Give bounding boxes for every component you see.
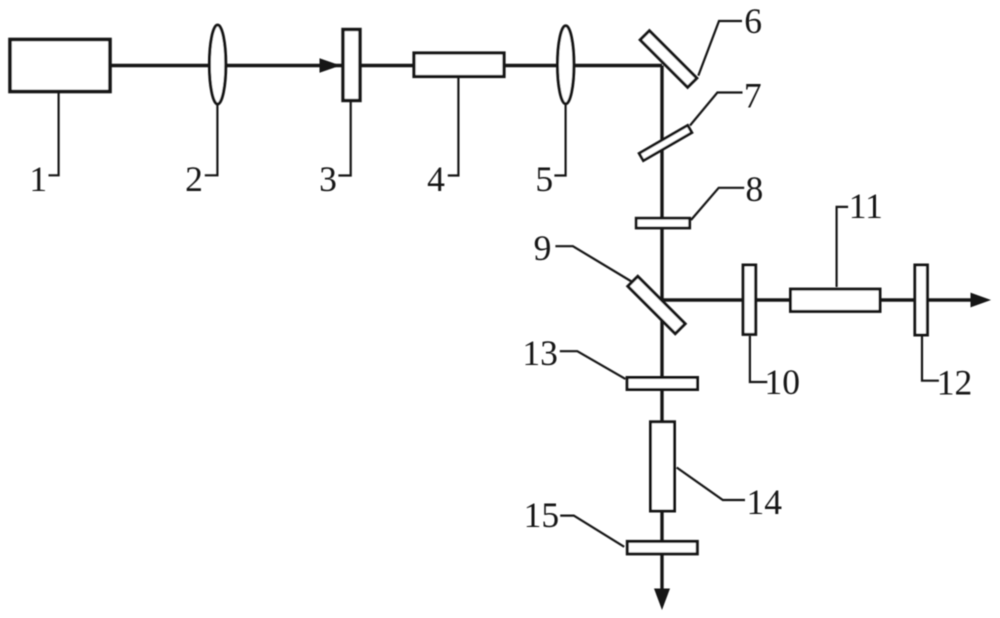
leader line for label 4 [448, 76, 459, 176]
laser source box 1 [10, 40, 110, 92]
leader line for label 8 [691, 188, 744, 220]
svg-text:2: 2 [185, 159, 203, 199]
lens 5 [558, 26, 574, 104]
svg-text:4: 4 [427, 159, 445, 199]
element 13 (horizontal plate) [627, 378, 697, 390]
svg-text:9: 9 [534, 228, 552, 268]
wire: right branch beam from mirror 9 [662, 298, 972, 301]
beamsplitter 9 (45 deg) [628, 276, 685, 333]
element 7 (tilted thin plate) [639, 125, 692, 160]
leader line for label 6 [698, 21, 742, 76]
svg-text:6: 6 [744, 1, 762, 41]
element 10 (vertical plate) [743, 265, 756, 334]
svg-text:7: 7 [744, 76, 762, 116]
element 15 (horizontal plate) [627, 541, 697, 554]
element 11 (horizontal module) [791, 289, 881, 311]
element 3 (vertical plate) [343, 30, 360, 101]
arrowhead at bottom output [654, 589, 670, 611]
svg-text:10: 10 [764, 362, 800, 402]
arrowhead at right output [971, 293, 992, 308]
element 12 (vertical plate) [915, 265, 928, 335]
leader line for label 10 [750, 336, 767, 382]
leader line for label 14 [677, 468, 745, 501]
svg-text:15: 15 [524, 495, 560, 535]
element 4 (horizontal module) [414, 53, 504, 77]
leader line for label 7 [690, 93, 743, 126]
element 14 (vertical module) [651, 422, 675, 511]
arrowhead on beam before element 3 [320, 58, 341, 72]
wire: main horizontal beam from source to mirror 6 [111, 64, 662, 67]
svg-text:8: 8 [746, 169, 764, 209]
svg-text:5: 5 [535, 159, 553, 199]
svg-text:1: 1 [29, 159, 47, 199]
leader line for label 15 [560, 516, 624, 547]
leader line for label 1 [49, 92, 59, 175]
svg-text:3: 3 [319, 159, 337, 199]
svg-text:12: 12 [937, 363, 973, 403]
element 8 (horizontal plate) [636, 218, 690, 228]
leader line for label 9 [555, 246, 631, 281]
leader line for label 3 [338, 100, 350, 176]
svg-text:14: 14 [747, 482, 783, 522]
leader line for label 5 [554, 102, 565, 176]
leader line for label 2 [205, 102, 218, 175]
leader line for label 12 [922, 337, 939, 381]
svg-text:13: 13 [522, 333, 558, 373]
leader line for label 13 [560, 351, 626, 379]
wire: vertical beam from mirror 6 down [660, 66, 663, 590]
lens 2 [209, 25, 225, 104]
mirror 6 (45 deg) [640, 31, 697, 88]
leader line for label 11 [837, 207, 849, 287]
svg-text:11: 11 [849, 186, 883, 226]
